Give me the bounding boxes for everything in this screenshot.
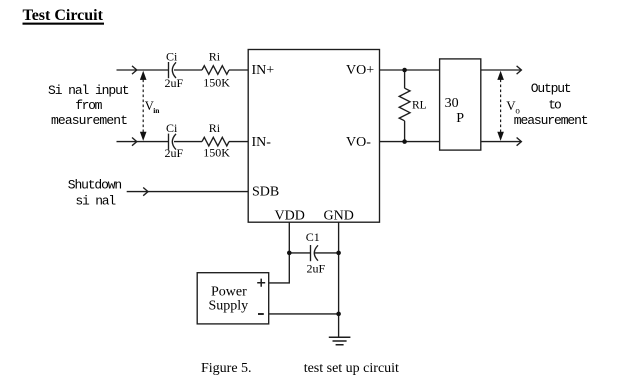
svg-text:P: P — [456, 111, 464, 126]
svg-text:si nal: si nal — [75, 194, 116, 209]
svg-text:GND: GND — [324, 209, 354, 224]
svg-text:Si nal input: Si nal input — [48, 83, 130, 98]
svg-text:150K: 150K — [203, 76, 230, 90]
svg-text:test set up circuit: test set up circuit — [304, 361, 399, 376]
svg-text:Ci: Ci — [166, 121, 178, 135]
svg-text:to: to — [548, 97, 562, 112]
svg-text:150K: 150K — [203, 146, 230, 160]
svg-text:VO+: VO+ — [346, 63, 374, 78]
svg-text:Shutdown: Shutdown — [68, 178, 122, 193]
svg-text:Ci: Ci — [166, 50, 178, 64]
svg-text:SDB: SDB — [252, 185, 279, 200]
svg-text:Power: Power — [211, 285, 247, 300]
svg-text:Ri: Ri — [209, 50, 221, 64]
svg-text:RL: RL — [412, 100, 427, 112]
svg-text:Figure 5.: Figure 5. — [201, 361, 252, 376]
svg-text:Supply: Supply — [209, 298, 249, 313]
svg-text:Output: Output — [531, 81, 572, 96]
svg-text:from: from — [75, 98, 102, 113]
svg-text:Test Circuit: Test Circuit — [23, 7, 104, 24]
svg-text:measurement: measurement — [51, 113, 128, 128]
svg-text:in: in — [153, 106, 160, 115]
svg-text:Ri: Ri — [209, 121, 221, 135]
svg-text:measurement: measurement — [514, 113, 589, 128]
svg-text:VO-: VO- — [346, 135, 371, 150]
svg-text:30: 30 — [445, 96, 459, 111]
svg-text:IN-: IN- — [252, 135, 272, 150]
svg-text:2uF: 2uF — [165, 76, 184, 90]
svg-text:2uF: 2uF — [307, 262, 326, 276]
svg-text:C1: C1 — [306, 230, 320, 244]
svg-text:VDD: VDD — [275, 209, 305, 224]
svg-text:IN+: IN+ — [252, 63, 275, 78]
svg-text:2uF: 2uF — [165, 146, 184, 160]
